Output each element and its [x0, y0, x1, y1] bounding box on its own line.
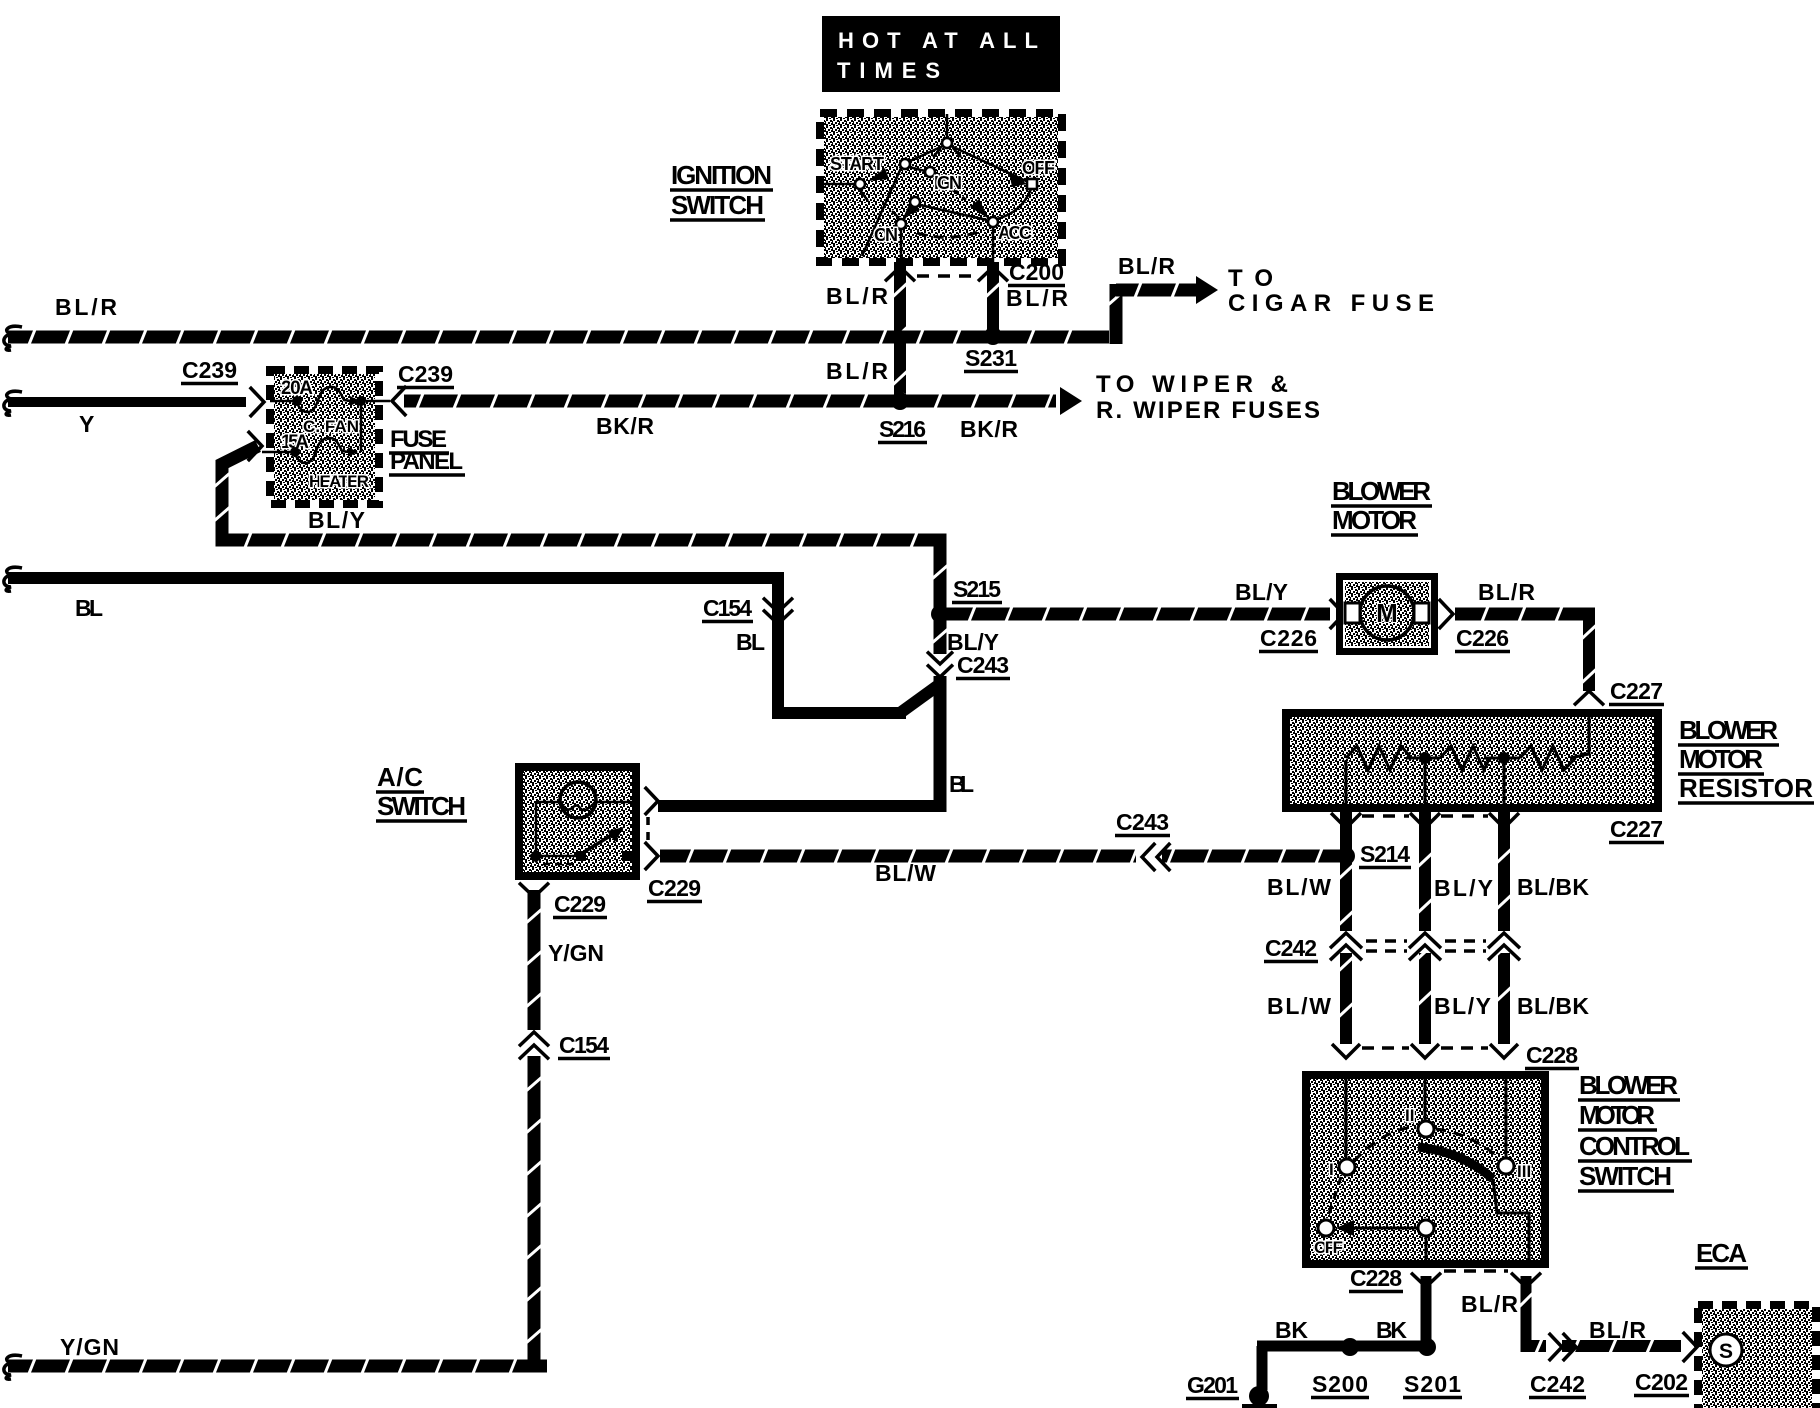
svg-text:BK/R: BK/R: [960, 416, 1018, 442]
svg-text:BL/R: BL/R: [1006, 285, 1068, 311]
svg-text:I: I: [1329, 1160, 1334, 1179]
connector C227: [1574, 678, 1664, 705]
splice S214: [1337, 841, 1411, 868]
label ECA: [1695, 1238, 1748, 1268]
connector C243: [927, 614, 1010, 679]
wire BL/Y to blower motor: [944, 606, 1330, 622]
wire BL/W resistor output: [1340, 812, 1352, 1044]
svg-text:C154: C154: [703, 595, 752, 621]
svg-text:IGNITION: IGNITION: [671, 160, 772, 190]
svg-text:C226: C226: [1456, 625, 1509, 651]
connector C154 on BL: [702, 595, 793, 624]
svg-text:BL/R: BL/R: [55, 294, 117, 320]
svg-text:C229: C229: [554, 891, 606, 917]
svg-text:C243: C243: [1116, 809, 1169, 835]
svg-text:BL/W: BL/W: [1267, 874, 1331, 900]
svg-text:M: M: [1376, 598, 1398, 628]
svg-text:BL/Y: BL/Y: [1235, 579, 1288, 605]
svg-text:C239: C239: [398, 361, 453, 387]
wire BL/W: [660, 848, 1340, 864]
svg-text:Y: Y: [79, 411, 94, 437]
svg-text:R. WIPER FUSES: R. WIPER FUSES: [1096, 397, 1320, 424]
svg-text:S: S: [1719, 1340, 1733, 1363]
connector C243 inline: [1115, 809, 1170, 871]
svg-text:CONTROL: CONTROL: [1579, 1131, 1690, 1161]
svg-text:BK: BK: [1275, 1317, 1308, 1343]
ECA module: [1698, 1305, 1816, 1408]
svg-text:BL/W: BL/W: [1267, 993, 1331, 1019]
wire BL/Y resistor output: [1419, 812, 1431, 1044]
svg-text:S215: S215: [953, 576, 1001, 602]
svg-text:G201: G201: [1187, 1372, 1238, 1398]
connector C200: [885, 259, 1065, 286]
svg-text:BL: BL: [949, 771, 974, 797]
svg-text:BL/BK: BL/BK: [1517, 874, 1589, 900]
splice S216: [878, 392, 927, 443]
svg-text:BL/Y: BL/Y: [947, 629, 999, 655]
connector C229 right: [645, 787, 702, 902]
label IGNITION SWITCH: [670, 160, 773, 220]
label FUSE PANEL: [389, 426, 465, 475]
svg-text:OFF: OFF: [1022, 158, 1055, 178]
svg-text:ACC: ACC: [998, 223, 1032, 243]
svg-text:BL/Y: BL/Y: [1434, 875, 1493, 901]
connector C227 resistor outputs: [1331, 813, 1664, 843]
svg-text:BL: BL: [736, 629, 765, 655]
wire BL/R ignition drop to S231: [986, 262, 1001, 335]
svg-text:BLOWER: BLOWER: [1332, 476, 1431, 506]
connector C202: [1634, 1332, 1697, 1396]
svg-text:C. FAN: C. FAN: [303, 417, 359, 436]
label A/C SWITCH: [376, 762, 467, 821]
splice S200: [1311, 1338, 1369, 1398]
svg-text:S231: S231: [965, 345, 1017, 371]
connector C229 bottom: [519, 883, 607, 918]
connector C242: [1264, 931, 1520, 962]
svg-text:MOTOR: MOTOR: [1679, 744, 1763, 774]
svg-text:S216: S216: [879, 416, 926, 442]
svg-text:S201: S201: [1404, 1371, 1461, 1397]
connector C239 right: [392, 361, 454, 416]
splice S201: [1403, 1338, 1462, 1398]
label TO WIPER and R WIPER FUSES: [1096, 371, 1320, 424]
splice S231: [964, 327, 1018, 372]
svg-text:C228: C228: [1350, 1265, 1402, 1291]
svg-text:SWITCH: SWITCH: [377, 791, 466, 821]
svg-text:BLOWER: BLOWER: [1579, 1070, 1678, 1100]
svg-text:III: III: [1517, 1162, 1531, 1181]
svg-text:C242: C242: [1530, 1371, 1585, 1397]
ground G201: [1186, 1372, 1277, 1408]
wire BL/R to ECA: [1519, 1276, 1681, 1354]
svg-text:BL/BK: BL/BK: [1517, 993, 1589, 1019]
wire BL down and to S215 branch: [772, 584, 940, 719]
svg-text:Y/GN: Y/GN: [548, 940, 604, 966]
blower motor resistor R1: [1282, 709, 1662, 812]
svg-text:A/C: A/C: [377, 762, 423, 792]
wire Y/GN: [4, 890, 547, 1379]
connector C226 left: [1259, 599, 1344, 652]
wire BL/R bus: [4, 284, 1124, 350]
svg-text:C200: C200: [1009, 259, 1064, 285]
connector C154 on Y/GN: [519, 1030, 610, 1059]
svg-text:Y/GN: Y/GN: [60, 1334, 119, 1360]
connector C226 right: [1439, 599, 1510, 652]
svg-text:C202: C202: [1635, 1369, 1688, 1395]
wire BL/R motor to resistor: [1455, 606, 1597, 691]
wire BK ground path: [1257, 1276, 1433, 1390]
svg-text:MOTOR: MOTOR: [1579, 1100, 1655, 1130]
svg-text:BL/R: BL/R: [1461, 1291, 1518, 1317]
ignition switch: [820, 113, 1062, 262]
fuse panel: [262, 370, 390, 504]
svg-text:SWITCH: SWITCH: [1579, 1161, 1672, 1191]
svg-text:BL/R: BL/R: [826, 358, 888, 384]
svg-text:BL/R: BL/R: [826, 283, 888, 309]
svg-text:ON: ON: [874, 225, 898, 245]
wire BK/R: [404, 387, 1082, 415]
svg-text:BLOWER: BLOWER: [1679, 715, 1778, 745]
A/C switch S2: [515, 763, 640, 880]
svg-text:BL/W: BL/W: [875, 860, 936, 886]
svg-text:C226: C226: [1260, 625, 1317, 651]
connector C242 inline: [1529, 1333, 1586, 1398]
svg-text:BL/Y: BL/Y: [308, 507, 365, 533]
svg-text:BL/Y: BL/Y: [1434, 993, 1491, 1019]
svg-text:SWITCH: SWITCH: [671, 190, 764, 220]
splice S215: [931, 576, 1002, 623]
wire BL/BK resistor output: [1498, 812, 1510, 1044]
svg-text:C243: C243: [957, 652, 1009, 678]
wire Y: [4, 391, 246, 415]
hot-at-all-times power label: [822, 16, 1060, 92]
svg-text:IGN: IGN: [934, 173, 962, 193]
svg-text:C242: C242: [1265, 935, 1317, 961]
wire BL: [4, 567, 784, 591]
wire BL/R ignition drop to S216: [893, 262, 908, 399]
svg-text:PANEL: PANEL: [390, 448, 463, 475]
svg-text:BL/R: BL/R: [1589, 1317, 1646, 1343]
blower motor M1: [1336, 573, 1438, 655]
svg-text:MOTOR: MOTOR: [1332, 505, 1417, 535]
svg-text:BK: BK: [1376, 1317, 1407, 1343]
svg-text:BL/R: BL/R: [1118, 253, 1175, 279]
svg-text:RESISTOR: RESISTOR: [1679, 773, 1813, 803]
svg-text:C227: C227: [1610, 678, 1663, 704]
svg-text:S214: S214: [1360, 841, 1410, 867]
svg-text:C154: C154: [559, 1032, 609, 1058]
svg-text:ECA: ECA: [1696, 1238, 1747, 1268]
connector C228 bottom: [1349, 1265, 1541, 1292]
label TO CIGAR FUSE: [1228, 265, 1434, 317]
blower motor control switch S1: [1302, 1071, 1549, 1268]
svg-text:C227: C227: [1610, 816, 1663, 842]
label BLOWER MOTOR CONTROL SWITCH: [1578, 1070, 1692, 1191]
svg-text:BK/R: BK/R: [596, 413, 654, 439]
svg-text:S200: S200: [1312, 1371, 1368, 1397]
wire BL to A/C switch: [658, 676, 947, 812]
label BLOWER MOTOR RESISTOR: [1678, 715, 1814, 803]
arrow to cigar fuse: [1116, 276, 1218, 304]
svg-text:C229: C229: [648, 875, 701, 901]
connector C239 left: [181, 357, 264, 417]
svg-text:HEATER: HEATER: [309, 472, 369, 491]
connector C228: [1332, 1042, 1579, 1069]
label BLOWER MOTOR: [1331, 476, 1432, 535]
svg-text:II: II: [1405, 1106, 1414, 1125]
svg-text:C228: C228: [1526, 1042, 1578, 1068]
svg-text:TO WIPER &: TO WIPER &: [1096, 371, 1288, 398]
wire BL/Y from fuse panel: [214, 431, 948, 618]
svg-text:20A: 20A: [281, 378, 313, 399]
svg-text:BL: BL: [75, 595, 103, 621]
svg-text:OFF: OFF: [1314, 1238, 1343, 1257]
svg-text:C239: C239: [182, 357, 237, 383]
svg-text:START: START: [830, 154, 884, 174]
svg-text:BL/R: BL/R: [1478, 579, 1535, 605]
